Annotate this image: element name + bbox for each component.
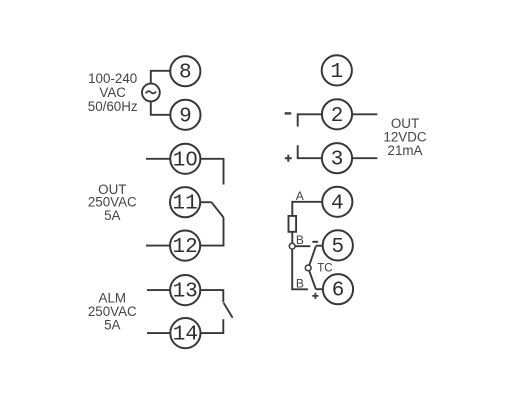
wire node B lower lead B: [292, 249, 308, 289]
label OUT relay rating: [88, 182, 137, 223]
wire resistor to node B: [291, 232, 293, 244]
relay contact arm OUT: [211, 202, 223, 217]
relay contact arm ALM: [224, 303, 233, 318]
wire AC source to terminal 9: [151, 101, 171, 115]
terminal 5: [323, 230, 353, 260]
svg-text:5A: 5A: [104, 318, 120, 333]
svg-text:TC: TC: [317, 263, 332, 275]
label plus terminal 6: [312, 293, 318, 299]
svg-text:2: 2: [331, 105, 344, 128]
svg-text:1: 1: [330, 61, 343, 84]
wire left stub terminal 14: [147, 332, 170, 334]
label minus terminal 5: [312, 241, 318, 243]
svg-text:10: 10: [173, 149, 198, 172]
wire terminal 2 minus bracket: [298, 114, 322, 126]
wire terminal 11 stub: [200, 201, 211, 203]
svg-text:11: 11: [172, 193, 197, 216]
terminal 2: [322, 99, 352, 129]
terminal 6: [323, 274, 353, 304]
wire terminal 10 fixed contact: [200, 159, 223, 185]
wire node B to terminal 5: [295, 245, 310, 247]
terminal 11: [170, 187, 200, 217]
wire terminal 2 right stub: [352, 113, 377, 115]
wire left stub terminal 10: [146, 158, 170, 160]
wire left stub terminal 12: [146, 245, 170, 247]
terminal 9: [170, 100, 200, 130]
label OUT 12VDC block: [383, 116, 426, 158]
resistor RTD element: [289, 216, 297, 232]
wire terminal 14 riser: [201, 319, 224, 333]
svg-text:VAC: VAC: [99, 85, 126, 100]
wire terminal 3 right stub: [352, 157, 377, 159]
wire TC lead into terminal 5: [316, 245, 323, 247]
terminal 12: [170, 231, 200, 261]
svg-text:6: 6: [332, 280, 345, 303]
svg-text:50/60Hz: 50/60Hz: [88, 99, 138, 114]
wire terminal 13 fixed contact: [200, 290, 223, 302]
terminal 4: [322, 187, 352, 217]
AC tilde symbol: [146, 91, 156, 93]
node B junction: [289, 243, 295, 249]
svg-text:21mA: 21mA: [388, 143, 423, 158]
label ALM relay rating: [88, 290, 137, 332]
AC source symbol: [142, 84, 160, 102]
svg-text:14: 14: [173, 324, 198, 347]
wire terminal 3 plus bracket: [298, 145, 322, 158]
wire terminal 12 riser: [200, 217, 223, 245]
svg-text:3: 3: [331, 149, 344, 172]
wire TC lower lead: [309, 271, 316, 290]
wire terminal 8 to AC source: [151, 71, 171, 84]
svg-text:4: 4: [331, 192, 344, 215]
wire terminal 4 lead A: [292, 202, 322, 216]
svg-text:5A: 5A: [104, 208, 120, 223]
terminal 14: [170, 318, 200, 348]
svg-text:8: 8: [179, 62, 192, 85]
svg-text:100-240: 100-240: [88, 71, 137, 86]
terminal 3: [322, 143, 352, 173]
terminal 8: [170, 56, 200, 86]
svg-text:13: 13: [173, 281, 198, 304]
terminal 10: [170, 144, 200, 174]
terminal 1: [322, 55, 352, 85]
label plus terminal 3: [285, 155, 292, 162]
svg-text:5: 5: [331, 236, 344, 259]
svg-text:B: B: [296, 233, 304, 247]
wire left stub terminal 13: [147, 289, 170, 291]
TC junction: [305, 265, 311, 271]
label power rating: [88, 71, 138, 114]
svg-text:12: 12: [172, 236, 197, 259]
svg-text:9: 9: [179, 105, 192, 128]
wire TC upper lead: [309, 246, 316, 265]
svg-text:B: B: [296, 276, 304, 290]
wire TC lead into terminal 6: [316, 288, 323, 290]
svg-text:A: A: [296, 189, 304, 203]
terminal 13: [170, 275, 200, 305]
label minus terminal 2: [285, 112, 292, 114]
